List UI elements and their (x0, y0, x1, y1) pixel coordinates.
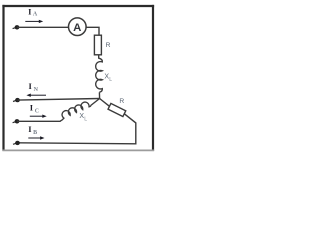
ammeter A1 (69, 18, 87, 36)
arrow I_B (points right) (28, 136, 44, 139)
node terminal N (dot) (13, 98, 20, 102)
node center junction (99, 98, 101, 100)
svg-text:L: L (84, 117, 87, 123)
resistor R (phase A, vertical box) (94, 35, 101, 55)
label X_L (phase C) (79, 113, 87, 122)
label I_C (30, 103, 39, 115)
inductor X_L (phase A, vertical coil) (96, 58, 103, 92)
resistor R (phase B, diagonal box) (108, 103, 126, 116)
inductor X_L (phase C, diagonal coil) (57, 100, 91, 121)
label I_A (28, 6, 38, 17)
svg-text:A: A (33, 12, 38, 18)
label X_L (phase A) (104, 74, 112, 84)
svg-text:L: L (109, 77, 112, 83)
arrow I_A (points right) (25, 20, 43, 23)
svg-text:B: B (33, 130, 37, 136)
arrow I_N (points left) (26, 94, 46, 97)
wire ammeter to corner (86, 27, 99, 35)
wire neutral N (18, 99, 100, 101)
wire phase A left (17, 26, 69, 28)
node terminal A (dot) (13, 25, 20, 29)
svg-text:R: R (119, 98, 124, 105)
wire node to resistor B (100, 99, 110, 107)
label I_B (28, 124, 37, 136)
svg-text:A: A (73, 22, 81, 34)
wire resistor B to corner (17, 114, 136, 144)
wire coil to node (98, 92, 100, 98)
wire R to coil (98, 55, 100, 59)
svg-text:C: C (35, 108, 39, 114)
svg-text:N: N (34, 87, 39, 93)
label I_N (29, 81, 39, 93)
wire phase C left (17, 120, 61, 122)
wire coil C to node (91, 99, 100, 106)
node terminal C (dot) (13, 119, 20, 123)
svg-text:R: R (106, 42, 111, 49)
node terminal B (dot) (13, 141, 20, 145)
arrow I_C (points right) (30, 115, 47, 118)
